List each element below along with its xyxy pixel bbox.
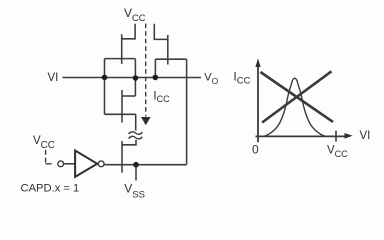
svg-text:VSS: VSS — [124, 182, 145, 201]
svg-text:VI: VI — [360, 130, 371, 142]
svg-text:ICC: ICC — [153, 90, 170, 104]
svg-text:0: 0 — [252, 143, 259, 157]
svg-text:VI: VI — [48, 72, 59, 84]
svg-text:VO: VO — [204, 72, 218, 87]
svg-text:VCC: VCC — [327, 145, 348, 159]
svg-text:VCC: VCC — [124, 6, 146, 23]
svg-text:CAPD.x = 1: CAPD.x = 1 — [21, 183, 80, 195]
svg-text:ICC: ICC — [233, 69, 250, 86]
svg-text:VCC: VCC — [33, 135, 55, 151]
